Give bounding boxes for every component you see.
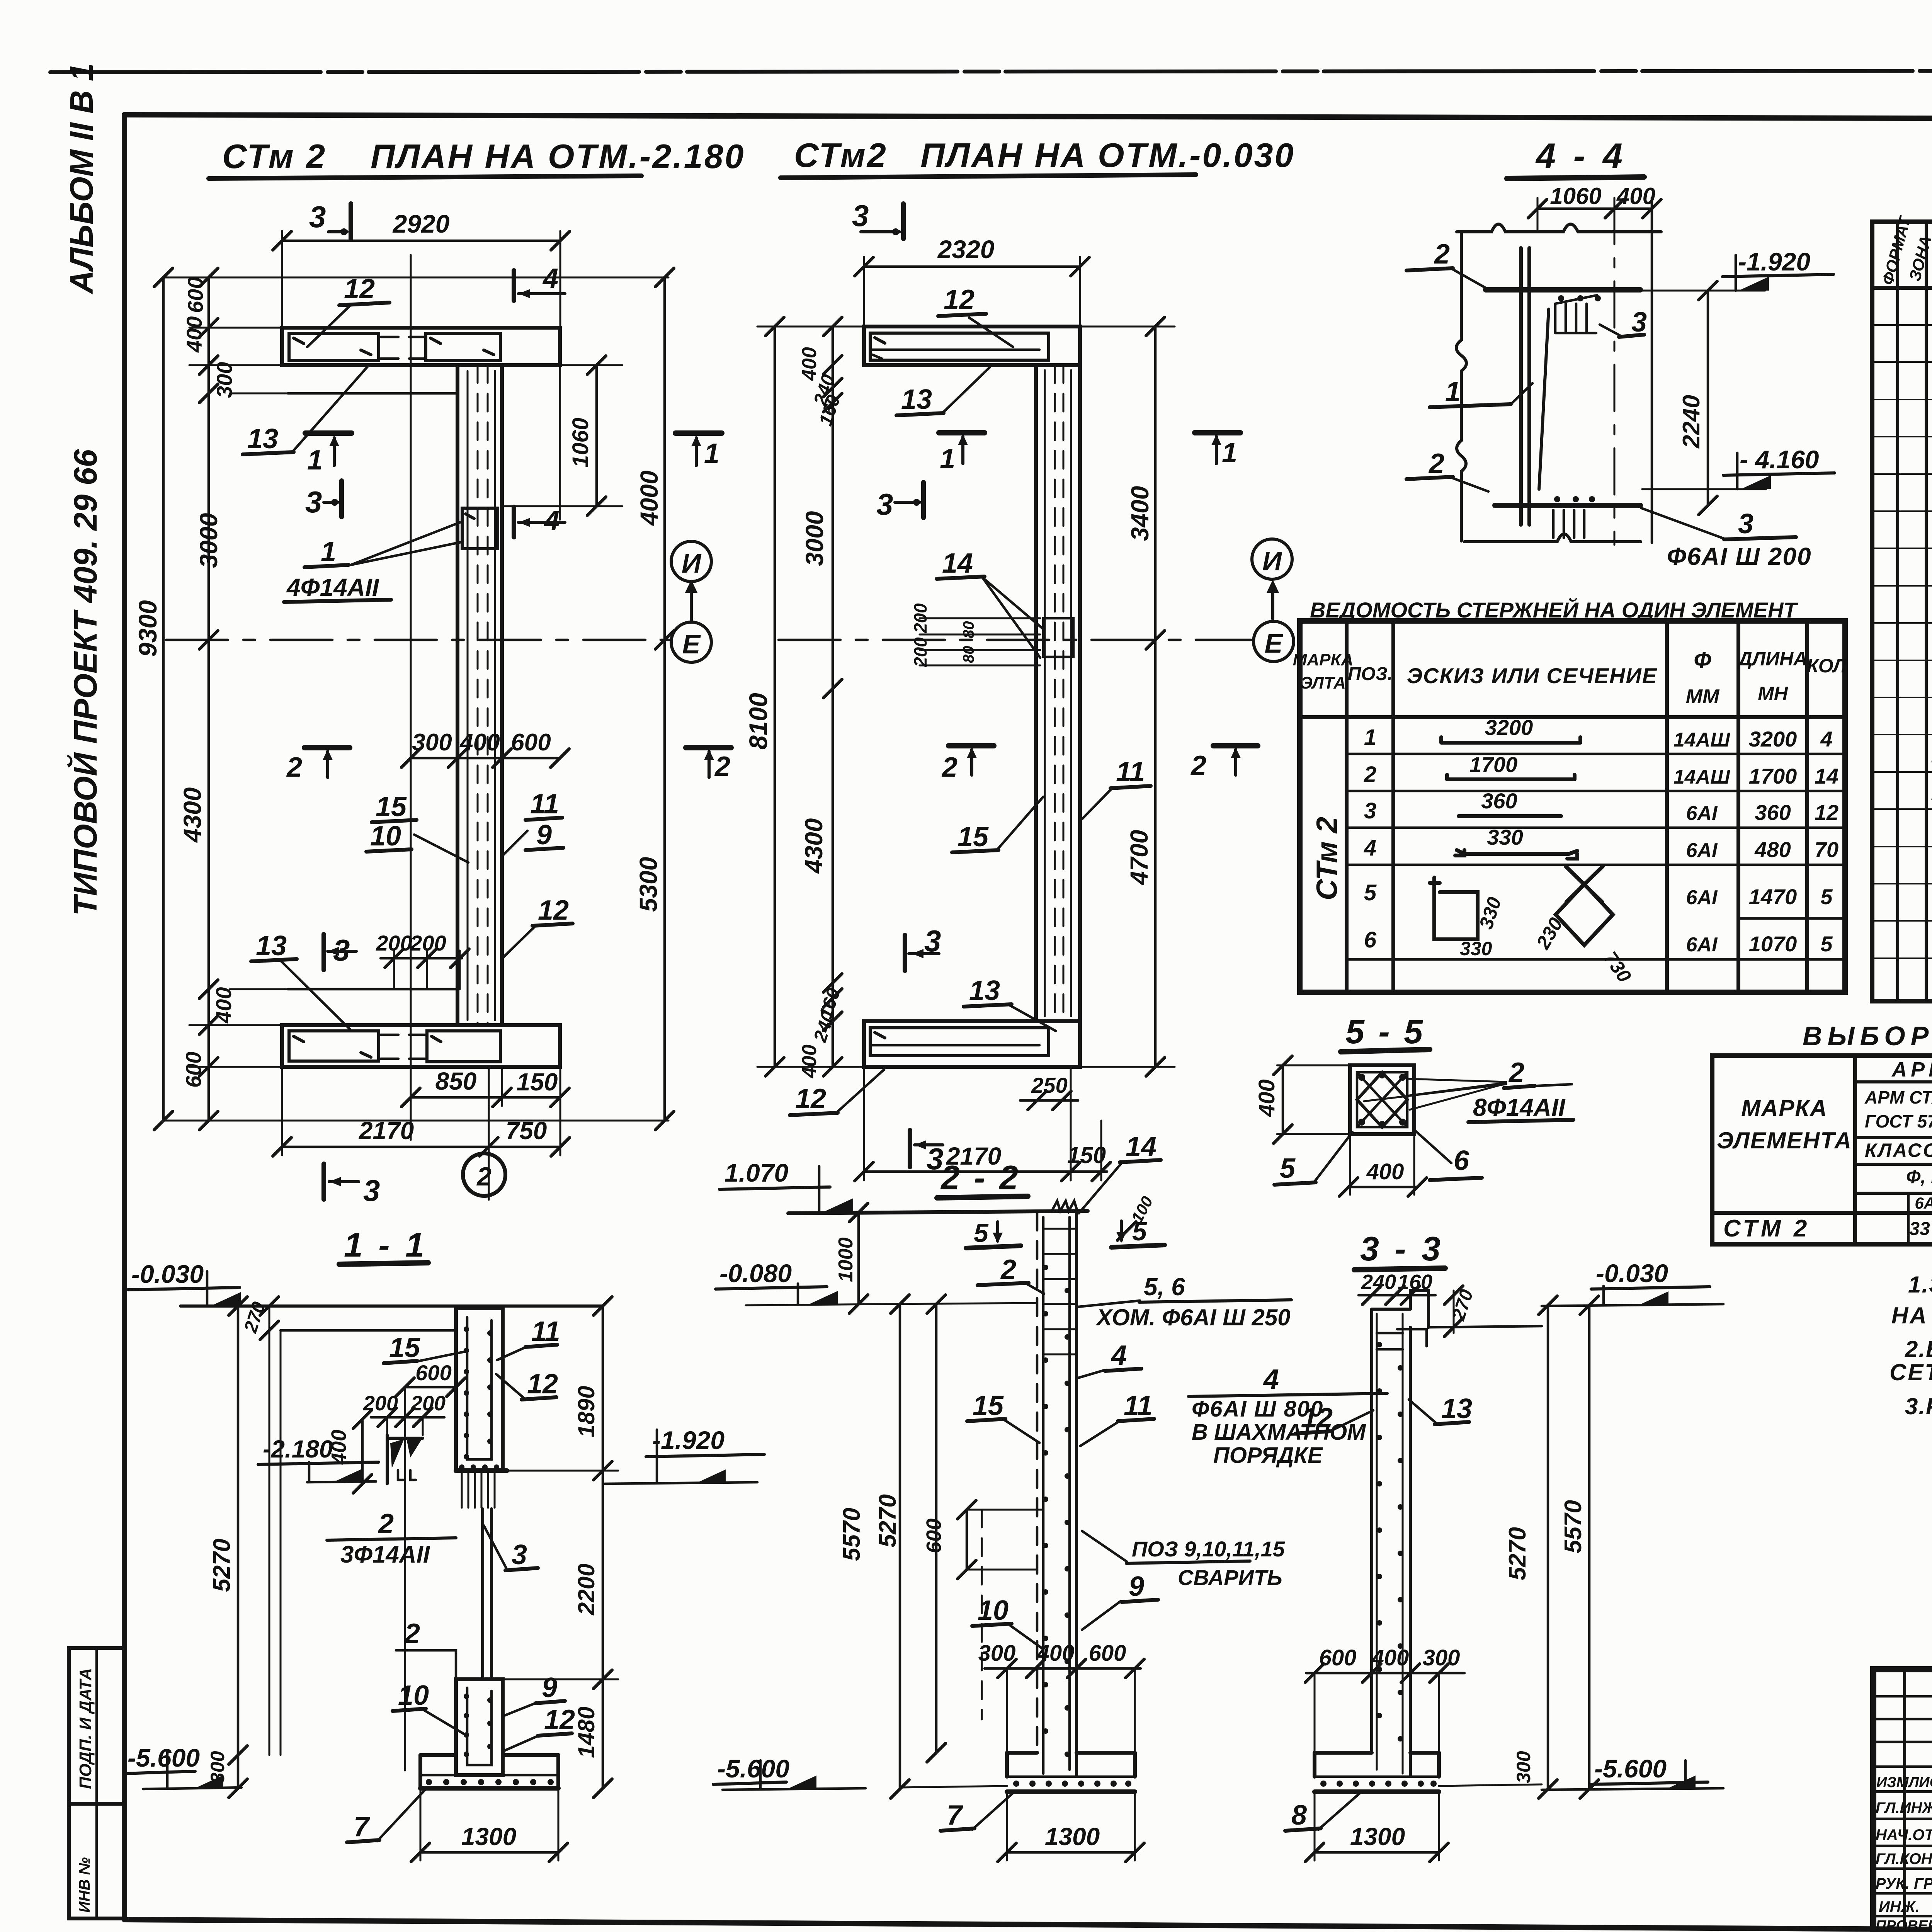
column square outer [1350,1065,1414,1134]
svg-text:10: 10 [398,1680,429,1711]
svg-text:14: 14 [942,548,973,579]
diamond bars [1357,1072,1407,1127]
svg-text:12: 12 [944,284,975,315]
dimension 8100 left [774,327,776,1067]
svg-text:9: 9 [536,820,552,850]
svg-text:АРМ СТАЛЬ: АРМ СТАЛЬ [1864,1087,1932,1107]
right dim chain [602,1306,604,1788]
svg-text:-5.600: -5.600 [1594,1754,1667,1783]
svg-text:13: 13 [1441,1393,1472,1424]
svg-text:12: 12 [795,1083,826,1114]
leader fan to 2 [1407,1079,1506,1082]
svg-text:ИЗМ: ИЗМ [1876,1774,1909,1791]
svg-text:600: 600 [922,1519,946,1553]
svg-text:8100: 8100 [744,693,772,750]
svg-text:600: 600 [415,1361,451,1385]
svg-text:7: 7 [947,1800,963,1831]
svg-text:5270: 5270 [874,1494,901,1548]
svg-text:СТм2 ПЛАН НА ОТМ.-0.030: СТм2 ПЛАН НА ОТМ.-0.030 [794,136,1295,174]
axis circle N [1252,539,1292,579]
svg-text:600: 600 [181,1052,206,1088]
svg-text:МАРКА: МАРКА [1293,650,1354,669]
svg-text:15: 15 [389,1332,420,1363]
svg-text:ГЛ.КОНСТР: ГЛ.КОНСТР [1876,1850,1932,1867]
axis arrow [1271,584,1274,619]
svg-text:5: 5 [1364,880,1377,905]
svg-text:4300: 4300 [800,818,828,874]
svg-text:11: 11 [531,1316,560,1347]
svg-text:Е: Е [682,629,701,659]
svg-text:2: 2 [1434,239,1450,270]
svg-text:4 - 4: 4 - 4 [1535,136,1626,176]
bottom edge with break [1464,534,1641,542]
svg-text:Ф, ММ: Ф, ММ [1906,1167,1932,1187]
svg-text:360: 360 [1755,800,1791,825]
axis dashed line E [166,639,669,641]
slab at -1.920 [1486,287,1640,293]
svg-text:1700: 1700 [1749,764,1797,788]
svg-text:13: 13 [969,975,1000,1006]
inner wall edge top [288,392,457,395]
svg-text:НА ЛИСТЕ КЖ-6.: НА ЛИСТЕ КЖ-6. [1891,1303,1932,1328]
svg-text:2: 2 [1508,1057,1524,1088]
dim 5270 left [237,1306,240,1788]
svg-text:-0.030: -0.030 [131,1260,204,1288]
dimension 400 bottom [1349,1186,1417,1189]
upper wall [456,1308,503,1471]
svg-text:2 - 2: 2 - 2 [940,1158,1020,1197]
svg-text:2240: 2240 [1678,395,1705,449]
svg-text:13: 13 [247,423,278,454]
svg-text:2: 2 [1428,448,1444,479]
svg-text:ПОРЯДКЕ: ПОРЯДКЕ [1213,1443,1323,1468]
wall web [456,365,459,1025]
svg-text:1: 1 [321,536,336,567]
footing [420,1753,456,1757]
svg-text:600: 600 [511,729,551,756]
svg-text:400: 400 [459,729,500,756]
svg-text:2: 2 [378,1509,394,1539]
stirrup rungs [1043,1229,1077,1354]
svg-text:ГОСТ 5781-75: ГОСТ 5781-75 [1865,1111,1932,1131]
svg-text:400: 400 [798,347,821,381]
svg-text:3: 3 [309,200,326,234]
svg-text:6АI: 6АI [1686,839,1718,862]
svg-text:2170: 2170 [359,1117,414,1145]
svg-text:4: 4 [1364,835,1376,861]
svg-text:3: 3 [305,485,322,519]
wall top [788,1211,1088,1213]
mesh rect bottom-right [427,1031,500,1062]
svg-text:5: 5 [1280,1153,1296,1184]
svg-text:10: 10 [978,1595,1009,1626]
svg-text:600: 600 [1319,1645,1357,1670]
svg-text:1890: 1890 [573,1386,599,1437]
svg-text:ПОЗ 9,10,11,15: ПОЗ 9,10,11,15 [1132,1537,1285,1561]
column square inner [1357,1072,1407,1127]
bottom extension line [163,1120,668,1122]
svg-text:1.ЗАКЛАДНЫЕ ИЗДЕЛИЯ ПОЗ. 10: 1.ЗАКЛАДНЫЕ ИЗДЕЛИЯ ПОЗ. 100 И 101 ЗАМАР… [1908,1272,1932,1298]
svg-text:5: 5 [1132,1217,1147,1246]
svg-text:ПОДП. И ДАТА: ПОДП. И ДАТА [76,1668,95,1789]
svg-text:33 9: 33 9 [1909,1219,1932,1239]
section mark 2 right [686,745,731,750]
svg-text:1300: 1300 [1350,1823,1405,1850]
svg-text:4Ф14АII: 4Ф14АII [286,573,379,601]
section mark 2 right [1213,743,1258,748]
svg-text:В ШАХМАТНОМ: В ШАХМАТНОМ [1192,1420,1366,1445]
projection verticals [269,1306,270,1755]
wall verticals [1036,1213,1039,1753]
svg-text:250: 250 [1031,1073,1067,1097]
inner wall edge bottom [288,988,457,991]
dimension 2920 [282,240,560,242]
stirrup hatch below slab [1555,304,1596,333]
svg-text:АРМАТУРНЫЕ ИЗДЕЛИЯ: АРМАТУРНЫЕ ИЗДЕЛИЯ [1891,1058,1932,1081]
svg-text:2.В МЕСТАХ ТЕХНОЛОГИЧЕСКИХ: 2.В МЕСТАХ ТЕХНОЛОГИЧЕСКИХ ОТВЕРСТИЙ АРМ… [1905,1336,1932,1362]
svg-text:5: 5 [1820,932,1833,956]
svg-text:11: 11 [1124,1390,1153,1421]
svg-text:6АI: 6АI [1686,886,1718,909]
section mark 2 left [949,743,994,748]
wall top band [282,328,560,365]
svg-text:КЛАСС А -I: КЛАСС А -I [1865,1139,1932,1161]
footing [1315,1751,1372,1755]
dimension 2170 150 bottom [864,1170,1107,1173]
svg-text:3: 3 [512,1539,527,1570]
svg-text:750: 750 [506,1117,547,1145]
svg-text:3: 3 [363,1173,380,1207]
detail circle 2 [463,1153,505,1196]
svg-text:6: 6 [1364,927,1377,952]
dim 5270 right [1547,1305,1549,1789]
svg-text:1480: 1480 [573,1707,599,1758]
left break line [1456,232,1466,541]
svg-text:1300: 1300 [1045,1823,1100,1850]
stirrup hatch below lower slab [1553,510,1584,538]
svg-text:15: 15 [973,1390,1004,1421]
dimension 4000 right [663,277,666,640]
corner detail [386,1435,389,1484]
svg-text:5270: 5270 [1504,1527,1531,1580]
mesh rect bottom-left [289,1031,379,1061]
svg-text:14АШ: 14АШ [1673,766,1730,788]
svg-text:4: 4 [1111,1340,1127,1371]
svg-text:300: 300 [207,1751,228,1783]
svg-text:ММ: ММ [1686,685,1720,708]
svg-text:2920: 2920 [392,209,450,238]
svg-text:-5.600: -5.600 [717,1754,789,1783]
svg-text:Ф6АI Ш 200: Ф6АI Ш 200 [1667,543,1812,570]
dimension 1060 right [595,365,598,506]
svg-text:10: 10 [370,821,401,852]
svg-text:1 - 1: 1 - 1 [344,1226,427,1264]
svg-text:300: 300 [412,729,452,756]
svg-text:80: 80 [960,646,977,663]
wall rebar lines [1519,248,1523,525]
svg-text:2: 2 [714,751,730,782]
svg-text:1: 1 [940,444,955,474]
svg-text:КОЛ: КОЛ [1807,655,1847,677]
wall bottom band [864,1021,1080,1067]
axis arrow [690,584,693,621]
embed detail in web [1043,618,1073,657]
svg-text:ГЛ.ИНЖ.ПР: ГЛ.ИНЖ.ПР [1876,1799,1932,1816]
svg-text:Ф: Ф [1694,648,1711,673]
dimension 4700 right [1154,640,1157,1067]
dimension 200 200 [381,957,462,960]
svg-text:2: 2 [1364,762,1376,787]
axis circle E [671,622,711,662]
svg-text:400: 400 [1254,1079,1279,1117]
axis circle E [1253,621,1294,662]
svg-text:4: 4 [1820,727,1832,751]
svg-text:12: 12 [344,274,375,304]
section mark 1 right [675,430,722,436]
svg-text:400: 400 [211,987,236,1024]
svg-text:5300: 5300 [634,857,662,912]
svg-text:9: 9 [542,1672,557,1703]
svg-text:200: 200 [910,637,930,667]
svg-text:8: 8 [1291,1800,1307,1831]
svg-text:2320: 2320 [937,235,995,264]
mesh rect top-right [426,333,500,361]
svg-text:300: 300 [1513,1751,1534,1783]
svg-text:ЛИСТ: ЛИСТ [1908,1774,1932,1791]
dimension 2320 [864,265,1080,268]
section mark 1 left [939,430,985,435]
svg-text:12: 12 [1302,1403,1333,1434]
svg-text:4: 4 [1263,1364,1279,1395]
svg-text:12: 12 [527,1369,558,1400]
top extension line [163,277,668,279]
left chain dimension [832,327,834,1067]
extension stubs left [189,327,284,329]
svg-text:АЛЬБОМ II В 1: АЛЬБОМ II В 1 [63,63,100,294]
svg-text:5570: 5570 [1560,1500,1587,1553]
wall top and step [1372,1308,1410,1311]
svg-text:4: 4 [542,263,558,294]
section mark 2 left [304,745,350,750]
svg-text:15: 15 [376,791,407,822]
svg-text:5, 6: 5, 6 [1144,1273,1185,1301]
svg-text:400: 400 [1616,183,1655,209]
dimension 5300 right [663,640,666,1121]
svg-text:НАЧ.ОТД.: НАЧ.ОТД. [1876,1827,1932,1844]
svg-text:14: 14 [1126,1131,1156,1162]
svg-text:-0.080: -0.080 [719,1259,792,1287]
svg-text:2: 2 [1190,750,1206,781]
svg-text:600: 600 [183,277,207,313]
svg-text:1070: 1070 [1749,932,1797,956]
svg-text:2200: 2200 [573,1564,599,1616]
svg-text:330: 330 [1460,938,1492,959]
svg-text:ТИПОВОЙ ПРОЕКТ 409. 29 66: ТИПОВОЙ ПРОЕКТ 409. 29 66 [67,449,104,916]
lower wall [456,1679,503,1775]
second line [281,1329,456,1332]
svg-text:400: 400 [182,316,206,353]
svg-text:ЭСКИЗ ИЛИ СЕЧЕНИЕ: ЭСКИЗ ИЛИ СЕЧЕНИЕ [1407,663,1657,688]
svg-text:1300: 1300 [461,1823,516,1850]
svg-text:СТМ 2: СТМ 2 [1723,1215,1810,1242]
svg-text:300: 300 [1423,1645,1460,1670]
svg-text:5 - 5: 5 - 5 [1345,1012,1425,1051]
svg-text:7: 7 [354,1811,370,1842]
svg-text:ХОМ. Ф6АI Ш 250: ХОМ. Ф6АI Ш 250 [1095,1304,1291,1330]
mesh rect top-left [289,333,379,361]
dimension 300 400 600 mid [411,757,560,760]
title block outer [1873,1669,1932,1932]
svg-text:600: 600 [1089,1641,1126,1666]
axis circle N [671,541,711,582]
dashes bottom band [381,1034,425,1036]
svg-text:1: 1 [1222,437,1237,468]
signature area rows [1873,1695,1932,1698]
rebar dots [1043,1265,1070,1757]
svg-text:12: 12 [538,895,569,926]
projection line 400 [410,255,412,1140]
wall verticals [1370,1309,1373,1753]
svg-text:200: 200 [910,603,930,633]
svg-text:150: 150 [1067,1142,1106,1168]
top edge with break [1457,224,1661,232]
svg-text:13: 13 [256,930,287,961]
svg-text:МАРКА: МАРКА [1741,1095,1828,1121]
hatch below -1.920 [456,1468,507,1473]
svg-text:14: 14 [1815,764,1838,788]
section mark 1 right [1195,430,1240,435]
svg-text:6АI: 6АI [1686,802,1718,825]
web rebar lines [1044,370,1046,1016]
svg-text:ИНВ №: ИНВ № [76,1857,93,1913]
svg-text:3.РАСЧЕТНУЮ СХЕМУ НАГРУЗОК: 3.РАСЧЕТНУЮ СХЕМУ НАГРУЗОК СМ НА ЛИСТЕ К… [1905,1393,1932,1419]
svg-text:11: 11 [530,789,559,820]
svg-text:1: 1 [307,445,323,476]
svg-text:850: 850 [435,1067,477,1095]
svg-text:СТм 2 ПЛАН НА ОТМ.-2.180: СТм 2 ПЛАН НА ОТМ.-2.180 [222,137,745,175]
dimension 3400 right [1154,327,1157,640]
mesh lines in bottom band [870,1028,1049,1056]
dimension 850 150 [411,1096,560,1099]
svg-text:11: 11 [1116,757,1145,787]
svg-text:ПРОВЕР.: ПРОВЕР. [1876,1918,1932,1932]
svg-text:4000: 4000 [635,471,663,526]
center line [404,1387,406,1770]
left chain dimension line [207,277,210,1121]
top trim dashed line [50,70,1932,72]
svg-text:6АI: 6АI [1915,1194,1932,1212]
svg-text:2: 2 [476,1162,492,1191]
dimension 9300 left [162,277,165,1121]
svg-text:МН: МН [1758,683,1788,704]
top anchor rungs [1377,1333,1403,1349]
svg-text:80: 80 [960,621,977,639]
svg-text:3000: 3000 [801,511,828,566]
svg-text:5270: 5270 [209,1539,235,1592]
svg-text:3000: 3000 [195,513,223,568]
svg-text:3: 3 [852,199,869,233]
web rebar lines [467,371,469,1020]
svg-text:И: И [682,548,702,578]
svg-text:-5.600: -5.600 [128,1743,200,1772]
mesh lines in top band [870,333,1049,360]
svg-text:5570: 5570 [838,1508,865,1561]
svg-text:3200: 3200 [1485,715,1533,740]
svg-text:150: 150 [517,1068,558,1096]
svg-text:9300: 9300 [133,600,162,657]
svg-text:300: 300 [978,1641,1016,1666]
svg-text:6АI: 6АI [1686,934,1718,956]
svg-text:1: 1 [1445,376,1461,407]
svg-text:СЕТОК ВЫРЕЗАТЬ ПО МЕСТУ.: СЕТОК ВЫРЕЗАТЬ ПО МЕСТУ. [1889,1359,1932,1385]
svg-text:РУК. ГР..: РУК. ГР.. [1876,1875,1932,1892]
svg-text:СТм 2: СТм 2 [1311,817,1344,900]
svg-text:-1.920: -1.920 [652,1426,724,1454]
svg-text:2: 2 [286,752,302,783]
axis dashed line [779,639,1251,641]
svg-text:ЭЛЕМЕНТА: ЭЛЕМЕНТА [1717,1128,1852,1153]
svg-text:480: 480 [1754,837,1791,862]
summary table grid [1712,1056,1932,1244]
svg-text:13: 13 [901,384,932,415]
signature area verticals [1903,1669,1906,1932]
svg-text:6: 6 [1454,1145,1469,1176]
svg-text:1060: 1060 [568,418,593,468]
section mark 1 left [305,430,352,436]
dim 5270 left [935,1304,938,1753]
svg-text:3Ф14АII: 3Ф14АII [340,1541,430,1568]
dimension 2170 750 [282,1146,560,1148]
svg-text:70: 70 [1815,837,1838,862]
dashes between mesh rects [381,336,425,338]
schedule table grid [1300,621,1845,992]
svg-text:ЭЛТА: ЭЛТА [1300,673,1346,692]
svg-text:1: 1 [704,438,719,469]
svg-text:1.070: 1.070 [724,1158,788,1187]
svg-text:3: 3 [1364,798,1376,823]
dim 5570 left [899,1304,901,1789]
svg-text:360: 360 [1481,789,1517,813]
svg-text:8Ф14АII: 8Ф14АII [1473,1094,1566,1121]
svg-text:5: 5 [974,1218,989,1248]
svg-text:12: 12 [1815,800,1838,825]
svg-text:2: 2 [941,752,957,783]
wall sloped face [1539,309,1549,489]
axis dash line [1614,198,1616,545]
svg-text:5: 5 [1820,884,1833,909]
svg-text:И: И [1262,546,1282,576]
svg-text:ИНЖ.: ИНЖ. [1879,1898,1920,1915]
svg-text:3400: 3400 [1126,486,1154,541]
projection lines 200 200 [920,617,1040,619]
svg-text:3: 3 [1738,509,1753,539]
svg-text:3: 3 [876,487,893,521]
dimension 1060 400 [1537,207,1652,210]
dimension 2240 [1707,291,1709,505]
wall web [1034,365,1038,1021]
bottom-left margin table [69,1648,124,1918]
svg-text:3200: 3200 [1749,727,1797,751]
svg-text:СВАРИТЬ: СВАРИТЬ [1178,1565,1282,1590]
svg-text:1060: 1060 [1550,183,1601,209]
border frame [124,115,1932,120]
svg-text:1700: 1700 [1469,752,1518,777]
svg-text:ПОЗ.: ПОЗ. [1348,664,1393,684]
svg-text:-1.920: -1.920 [1738,247,1810,276]
svg-text:- 4.160: - 4.160 [1740,445,1819,474]
footing [1007,1751,1037,1755]
svg-text:400: 400 [1366,1159,1404,1184]
